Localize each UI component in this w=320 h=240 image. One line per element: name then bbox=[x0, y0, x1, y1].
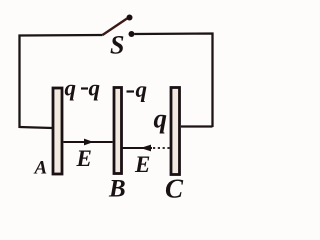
E field arrow between B and C (pointing left, dotted tail) bbox=[123, 147, 153, 149]
wire left bottom to plate A bbox=[20, 127, 53, 128]
svg-text:E: E bbox=[134, 152, 150, 177]
E field arrow between A and B (pointing right) bbox=[64, 141, 113, 143]
svg-text:A: A bbox=[34, 158, 48, 179]
svg-text:q: q bbox=[65, 76, 77, 101]
switch S lower contact dot bbox=[129, 31, 135, 37]
charge label -q right of plate B : minus stroke bbox=[127, 90, 135, 92]
wire right bottom to plate C bbox=[181, 125, 213, 127]
switch S blade bbox=[103, 19, 128, 36]
svg-text:B: B bbox=[108, 176, 126, 203]
svg-text:q: q bbox=[154, 104, 168, 134]
wire top-left from corner to switch bbox=[20, 35, 103, 128]
svg-text:E: E bbox=[76, 146, 92, 171]
capacitor plate A bbox=[53, 88, 62, 174]
svg-text:q: q bbox=[89, 76, 101, 101]
svg-text:S: S bbox=[110, 31, 124, 60]
wire top-right from switch to corner bbox=[135, 34, 213, 128]
svg-text:C: C bbox=[165, 174, 184, 204]
charge label -q left of plate B : minus stroke bbox=[81, 87, 88, 89]
capacitor plate C bbox=[171, 88, 180, 175]
switch S upper contact dot bbox=[127, 15, 133, 21]
svg-text:q: q bbox=[136, 77, 148, 102]
capacitor plate B bbox=[114, 88, 122, 174]
